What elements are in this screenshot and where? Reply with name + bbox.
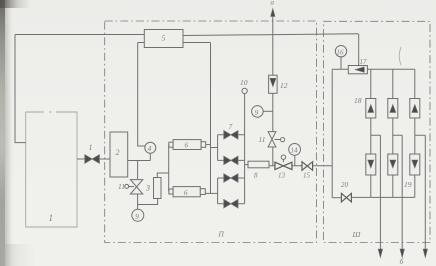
radiator 18b xyxy=(388,99,398,119)
valve 20 xyxy=(341,193,351,202)
wire: left rail of heaters xyxy=(168,145,170,192)
svg-text:4: 4 xyxy=(148,145,152,153)
wire: supply down to tank xyxy=(15,35,26,143)
svg-text:15: 15 xyxy=(303,172,311,180)
wire: bypass verticals xyxy=(380,135,425,249)
svg-text:3: 3 xyxy=(145,184,150,193)
arrow b2 xyxy=(400,249,404,258)
svg-text:8: 8 xyxy=(254,172,258,180)
wire: main supply top xyxy=(15,34,359,36)
wire: tap to orifice 8 xyxy=(245,164,248,166)
svg-text:14: 14 xyxy=(291,147,299,155)
svg-text:17: 17 xyxy=(360,58,368,66)
wire: bypass taps xyxy=(371,134,426,136)
valve 7b xyxy=(224,156,238,164)
svg-text:9: 9 xyxy=(255,109,259,117)
wire: section III vertical main xyxy=(331,69,333,197)
svg-text:13: 13 xyxy=(278,172,286,180)
radiator 19c xyxy=(410,154,420,175)
svg-text:1: 1 xyxy=(89,143,93,152)
svg-text:П: П xyxy=(218,230,225,239)
wire: 6a to loop right edge xyxy=(206,144,211,146)
section III border xyxy=(324,21,431,242)
wire: valve links xyxy=(218,135,245,204)
riser pipe xyxy=(272,11,274,166)
wire: valve group right rail from sensor 10 xyxy=(244,94,246,204)
svg-text:11: 11 xyxy=(118,182,125,191)
wire: valve 11 down, junction to filter 3 and gauge 9 xyxy=(138,194,158,209)
radiator 19b xyxy=(388,154,398,175)
svg-text:18: 18 xyxy=(354,96,362,105)
valve 11 (left) xyxy=(130,180,142,194)
wire: valve 1 to device 2 xyxy=(99,158,110,160)
elevator 17 xyxy=(348,66,367,74)
svg-text:9: 9 xyxy=(135,213,139,221)
valve 7a xyxy=(224,131,238,139)
radiator 19a xyxy=(366,154,376,175)
wire: branch down to valve 11 xyxy=(137,161,139,180)
arrow b3 xyxy=(423,249,427,258)
svg-text:Ш: Ш xyxy=(352,230,362,239)
valve 7c xyxy=(224,174,238,182)
wire: return line xyxy=(351,196,414,198)
svg-text:1: 1 xyxy=(49,213,54,223)
svg-text:б: б xyxy=(400,257,404,266)
wire: loop right edge xyxy=(210,43,212,194)
svg-text:19: 19 xyxy=(404,180,412,189)
wire: to elevator 17 xyxy=(332,68,348,70)
gauge 9 (right) xyxy=(252,106,264,118)
svg-text:а: а xyxy=(271,0,275,7)
svg-text:7: 7 xyxy=(229,122,233,131)
flow meter 12 xyxy=(269,75,278,93)
wire: columns 18 to 19 xyxy=(371,118,415,154)
orifice 8 xyxy=(248,161,269,168)
arrow b1 xyxy=(378,249,382,258)
wire: 6b feed to bottom valve pair xyxy=(205,192,217,194)
wire: valve 20 to vertical main xyxy=(332,197,341,199)
wire: column drops to radiators 18 xyxy=(371,69,415,98)
section II border xyxy=(105,21,317,243)
wire: main line to section III xyxy=(269,165,332,167)
wire: loop top edge xyxy=(138,42,211,44)
gauge 4 xyxy=(145,142,156,153)
valve 11 (upper) xyxy=(268,132,276,147)
svg-text:5: 5 xyxy=(162,34,166,43)
svg-text:12: 12 xyxy=(280,81,288,90)
valve 1 xyxy=(85,155,100,164)
svg-text:11: 11 xyxy=(259,135,266,144)
svg-text:20: 20 xyxy=(341,181,349,189)
svg-text:6: 6 xyxy=(184,189,188,197)
tank 1 xyxy=(26,112,77,227)
radiator 18c xyxy=(410,99,420,119)
heat meter 5 xyxy=(144,30,183,48)
wire: loop left edge to gauge 4 xyxy=(138,43,145,147)
wire: device 2 to gauge 4 stem xyxy=(128,160,151,162)
stray mark xyxy=(399,47,401,65)
wire: feed to top valve pair xyxy=(211,147,218,149)
gauge 14 xyxy=(289,144,301,156)
wire: valve group left rails xyxy=(217,135,219,204)
svg-text:10: 10 xyxy=(240,78,248,87)
valve 15 xyxy=(302,162,313,171)
filter 3 xyxy=(154,178,162,199)
heater 6a xyxy=(169,142,173,147)
sensor 10 xyxy=(242,88,247,93)
heater 6b xyxy=(169,189,173,194)
radiator 18a xyxy=(366,99,376,119)
device 2 xyxy=(110,132,128,177)
wire: filter 3 top to rail xyxy=(157,173,168,178)
valve 13 xyxy=(275,162,292,169)
svg-text:2: 2 xyxy=(116,148,120,157)
wire: top rail section III xyxy=(367,68,414,70)
gauge 9 (left) xyxy=(132,209,144,221)
svg-text:6: 6 xyxy=(185,142,189,150)
wire: tank to valve 1 xyxy=(77,158,85,160)
wire: radiator 19 bottoms to return xyxy=(371,175,415,197)
arrow A (top) xyxy=(271,9,275,17)
wire: supply drop to elevator xyxy=(358,34,360,66)
svg-text:16: 16 xyxy=(337,49,345,57)
valve 7d xyxy=(224,200,238,208)
gauge 16 xyxy=(335,46,346,57)
